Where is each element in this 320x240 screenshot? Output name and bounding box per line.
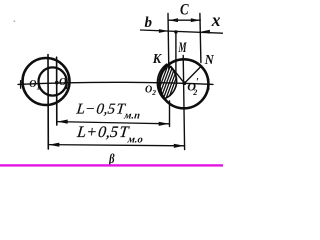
svg-text:b: b (145, 15, 153, 31)
C dim arrows (outward) (169, 18, 178, 22)
dot on M line top (174, 30, 177, 33)
extension line below circle for O2 (dim1 right end) (169, 101, 171, 127)
lens (hatched overlap region) (157, 64, 176, 99)
dimension C line (168, 19, 200, 21)
arrowheads (49, 18, 210, 148)
x arrow pointing left at N line (201, 30, 210, 34)
magenta rule (0, 164, 223, 166)
N extension line (200, 14, 201, 63)
dim1 arrows (57, 120, 67, 124)
svg-text:K: K (152, 52, 163, 67)
left big circle O1 (23, 58, 70, 105)
left small circle (39, 67, 67, 95)
radial from O2' to upper-right (N) (184, 67, 200, 84)
svg-text:β: β (108, 151, 114, 166)
wire: main horizontal centerline (18, 82, 213, 84)
svg-text:M: M (178, 40, 187, 56)
svg-text:N: N (204, 53, 215, 68)
right big circle O2' (159, 59, 208, 108)
center dot O1' (55, 81, 59, 85)
K extension line (167, 14, 170, 70)
vertical line through O1' (56, 57, 58, 125)
dim1 line L-0.5T (57, 122, 170, 124)
svg-text:C: C (180, 2, 189, 19)
dim2 arrows (49, 143, 60, 147)
vertical line through O1 (47, 55, 49, 150)
M line with dot (175, 33, 177, 79)
radial from O2' to upper-left (lens) (171, 66, 185, 83)
svg-text:x: x (211, 10, 221, 30)
b arrow pointing right at K line (159, 29, 168, 33)
node tick right end of centerline (208, 80, 210, 90)
center dot O2' (183, 81, 187, 85)
dim2 line L+0.5T (48, 145, 184, 146)
lens hatching (151, 66, 186, 104)
node tick left end of centerline (20, 81, 22, 89)
vertical centerline through O2' (183, 56, 184, 150)
scan speck (14, 21, 16, 22)
b/x line (141, 30, 223, 33)
